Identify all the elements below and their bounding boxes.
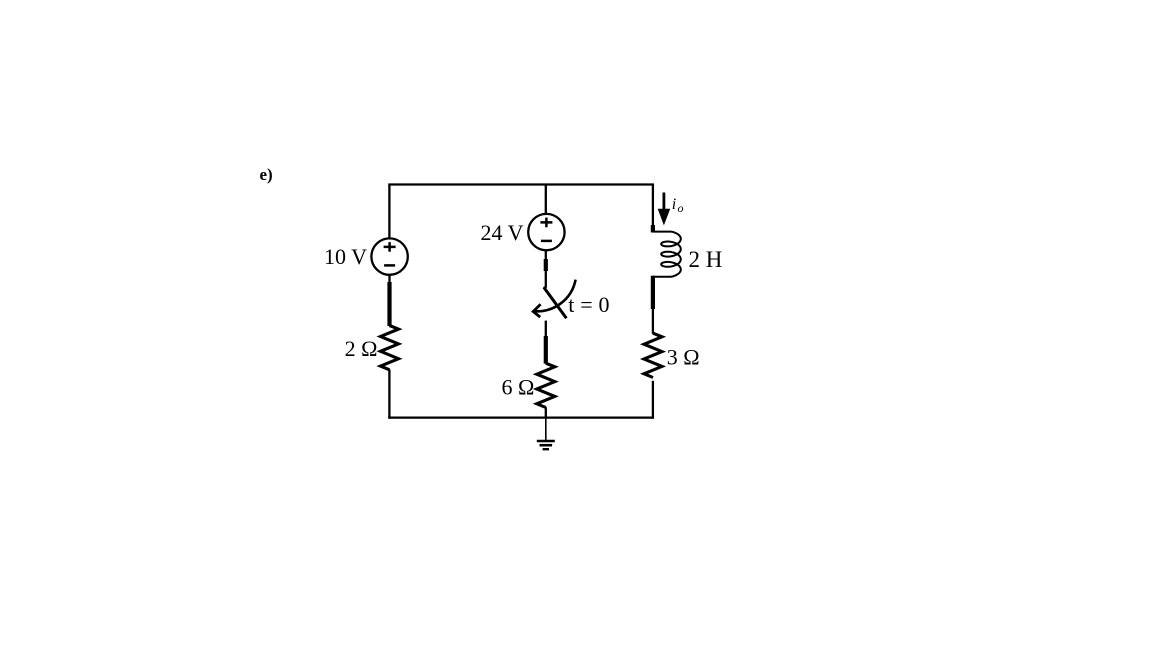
switch SW1 motion arc arrow — [535, 280, 576, 312]
current arrow i_o — [658, 193, 671, 226]
svg-text:e): e) — [260, 165, 273, 184]
svg-text:t = 0: t = 0 — [568, 292, 609, 317]
wire left rail upper (to 10V source) — [388, 185, 390, 240]
wire right rail lower (3-ohm to bottom rail) — [652, 381, 654, 419]
V1 plus polarity mark — [384, 242, 396, 252]
svg-text:3 Ω: 3 Ω — [667, 345, 700, 370]
wire left rail lower (2-ohm to bottom rail) — [388, 370, 390, 419]
wire bottom rail — [388, 416, 654, 418]
resistor R3 3-ohm — [644, 333, 662, 377]
voltage source V1 10V circle — [371, 238, 407, 274]
wire middle branch top (top rail to 24V source) — [545, 185, 547, 215]
wire right rail upper (top rail to inductor) — [652, 185, 654, 227]
wire top rail — [388, 183, 654, 185]
wire right rail: inductor to 3-ohm resistor — [651, 276, 655, 309]
wire middle branch: switch to 6-ohm resistor — [545, 321, 547, 337]
voltage source V2 24V circle — [528, 214, 564, 250]
svg-text:io: io — [672, 196, 684, 215]
wire middle branch: 24V source to switch — [545, 250, 547, 260]
svg-text:24 V: 24 V — [481, 220, 524, 245]
V2 plus polarity mark — [540, 218, 552, 228]
svg-text:2 H: 2 H — [689, 247, 723, 272]
switch SW1 blade — [545, 287, 567, 318]
svg-text:10 V: 10 V — [324, 244, 367, 269]
V1 minus polarity mark — [384, 264, 395, 267]
wire left rail between 10V source and 2-ohm resistor — [388, 275, 390, 283]
resistor R1 2-ohm — [381, 326, 399, 370]
resistor R2 6-ohm — [537, 363, 555, 407]
V2 minus polarity mark — [541, 240, 552, 243]
ground symbol — [537, 418, 555, 450]
inductor L1 2H coil — [653, 232, 681, 277]
svg-text:2 Ω: 2 Ω — [345, 336, 378, 361]
wire middle branch lower (6-ohm to bottom rail) — [545, 407, 547, 417]
svg-text:6 Ω: 6 Ω — [501, 375, 534, 400]
